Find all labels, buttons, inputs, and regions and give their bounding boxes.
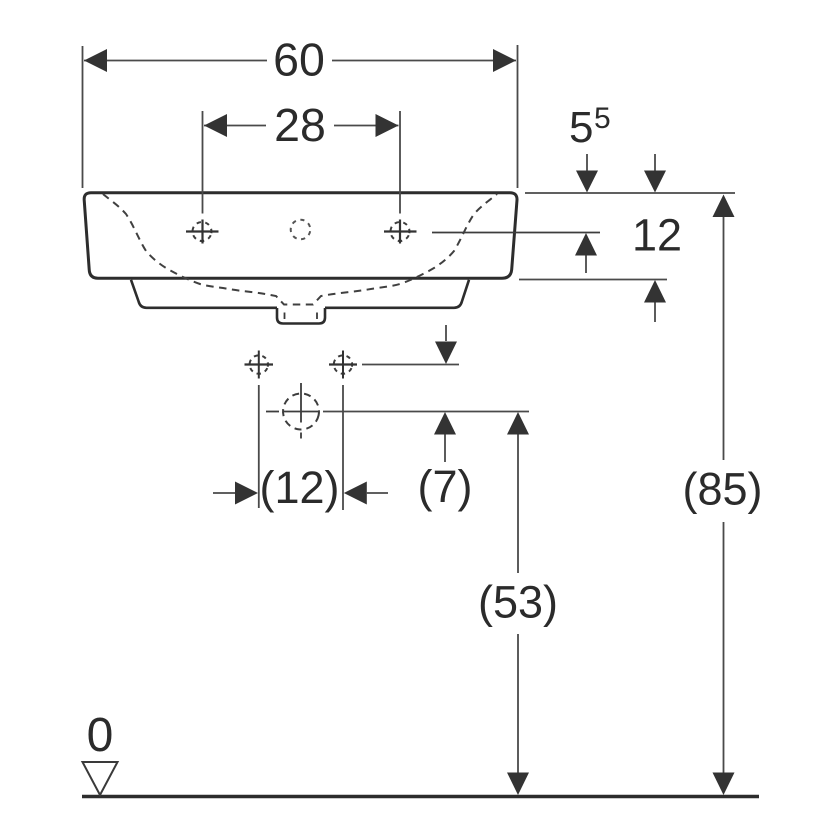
svg-text:28: 28 — [274, 99, 326, 151]
svg-text:(12): (12) — [259, 462, 339, 513]
svg-text:(53): (53) — [478, 577, 558, 628]
svg-text:12: 12 — [632, 210, 682, 261]
svg-text:60: 60 — [273, 34, 325, 86]
svg-text:(85): (85) — [682, 464, 762, 515]
svg-text:(7): (7) — [418, 461, 473, 512]
svg-text:5: 5 — [594, 102, 611, 135]
svg-text:0: 0 — [87, 709, 114, 762]
svg-text:5: 5 — [569, 103, 593, 152]
